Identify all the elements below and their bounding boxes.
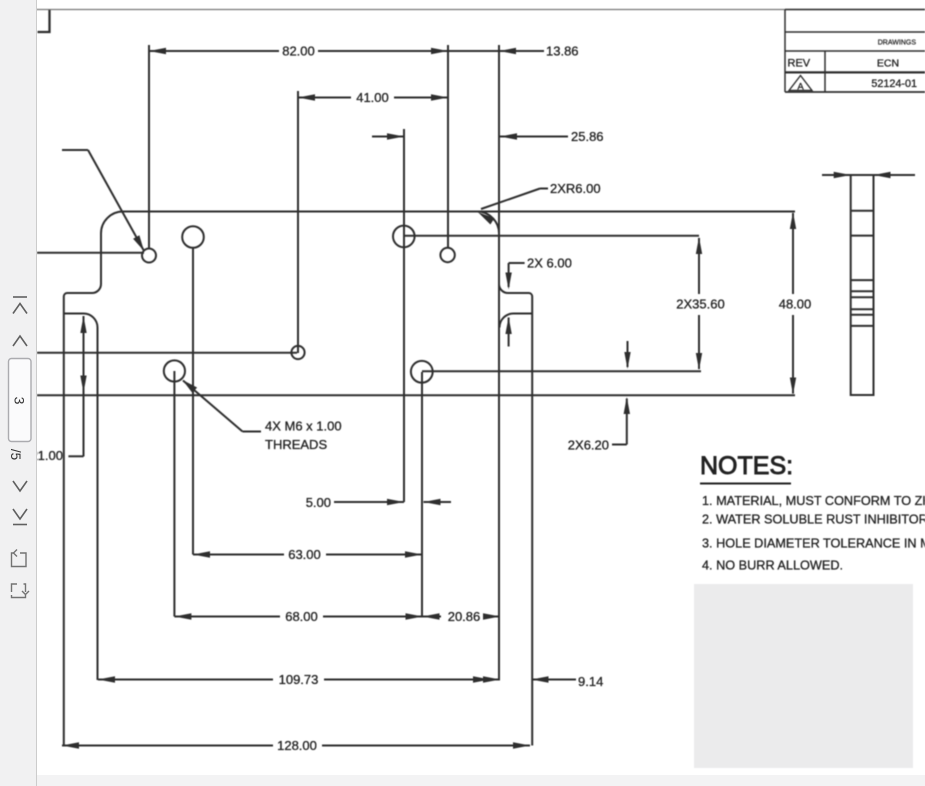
dim 128.00 [62,745,273,747]
sheet top border [35,9,925,11]
leader 4X M6 threads [183,381,243,432]
svg-text:25.86: 25.86 [571,129,604,144]
svg-text:2X 6.00: 2X 6.00 [527,256,572,271]
hole M6 top-right [393,226,415,248]
dim 20.86 [423,613,440,619]
svg-text:1. MATERIAL, MUST CONFORM TO Z: 1. MATERIAL, MUST CONFORM TO ZKTHW [702,494,925,508]
svg-text:128.00: 128.00 [277,738,317,753]
part edge to upper-left small hole [37,252,144,254]
toolbar last-page button [13,509,27,525]
leader 2XR6.00 [540,188,548,190]
part right tab bottom edge [514,313,533,315]
part right tab outer edge + 128.00 extension [531,297,533,746]
part fillet left inner [92,284,101,293]
dim 9.14 [532,679,577,681]
svg-text:ECN: ECN [877,57,899,69]
dim 48.00 [792,213,794,294]
part left tab bottom edge [64,313,83,315]
svg-text:2X6.20: 2X6.20 [568,437,609,452]
extension line 41.00 to middle small hole [297,91,299,353]
part inner edge through upper-right hole [404,235,699,237]
title block row line 1 [785,31,925,33]
svg-text:68.00: 68.00 [285,609,318,624]
dim 68.00 [174,616,280,618]
svg-text:2. WATER SOLUBLE RUST INHIBITO: 2. WATER SOLUBLE RUST INHIBITOR [702,513,925,527]
toolbar next-page button [13,481,27,491]
side view thickness dim [822,174,851,176]
svg-text:2XR6.00: 2XR6.00 [550,181,601,196]
svg-text:41.00: 41.00 [356,90,389,105]
svg-text:82.00: 82.00 [282,44,315,59]
extension line from 82.00 to top-left small hole [148,45,150,248]
part left tab outer edge + 128.00 extension [63,297,65,746]
hole small top-left [142,249,156,263]
extension line 82.00 to top-right small hole [447,45,449,247]
toolbar previous-page button [13,336,27,346]
pdf viewer vertical toolbar [0,0,37,786]
title block row line 2 [785,50,925,52]
dim 25.86 [372,136,404,138]
svg-text:63.00: 63.00 [288,547,321,562]
title block top edge [785,9,925,11]
part edge to middle small hole [37,352,297,354]
sheet corner bracket [38,10,50,32]
part right step top edge [508,292,529,294]
svg-text:/5: /5 [8,449,23,460]
svg-text:DRAWINGS: DRAWINGS [878,40,917,47]
gray placeholder box [694,584,913,768]
side view internal edges [851,210,874,212]
svg-text:52124-01: 52124-01 [871,78,917,90]
title block row line 3 (thick) [785,71,925,73]
dim 21.00 [83,316,85,457]
dim 2X35.60 [698,238,700,294]
svg-text:20.86: 20.86 [448,609,481,624]
svg-text:2X35.60: 2X35.60 [676,297,724,312]
part inner edge lower right [422,370,701,372]
dim 5.00 [334,501,404,503]
dim 63.00 [193,554,284,556]
svg-text:5.00: 5.00 [306,495,331,510]
part bottom edge with extensions [37,394,795,396]
svg-text:4. NO BURR ALLOWED.: 4. NO BURR ALLOWED. [702,559,843,573]
svg-text:109.73: 109.73 [279,672,319,687]
toolbar rotate-counterclockwise button [12,550,27,567]
svg-text:A: A [797,82,804,93]
dim 109.73 [98,679,273,681]
dim 2X6.20 [627,341,629,367]
title block column divider [824,51,826,92]
part left edge upper [100,234,102,285]
part fillet top-left R6 [101,212,123,234]
part left edge lower + 109.73 extension [97,328,99,681]
revision triangle A symbol [789,76,812,91]
svg-text:13.86: 13.86 [546,44,579,59]
dim 13.86 [448,50,544,52]
part right edge + extensions [498,45,500,680]
toolbar page number input box [9,359,32,442]
svg-text:3. HOLE DIAMETER TOLERANCE IN: 3. HOLE DIAMETER TOLERANCE IN MM TO BE [702,537,925,551]
hole small top-right [440,248,454,262]
extension line top-left M6 hole to 63.00 [192,249,194,555]
leader to small hole top-left [62,149,88,151]
hole M6 top-left [182,226,204,248]
dim 82.00 [149,50,279,52]
part top edge with 48.00 extension [123,211,795,213]
hole small middle [291,346,304,359]
svg-text:3: 3 [12,397,28,405]
title block bottom line [785,91,925,93]
extension line 25.86 through top-right M6 hole to 5.00 [403,129,405,502]
pdf viewer bottom bar [0,775,925,786]
toolbar rotate-clockwise button [12,584,30,598]
part fillet right inner [499,284,508,293]
part fillet left small [64,293,67,297]
extension line bottom-left M6 hole to 68.00 [173,371,175,617]
part fillet top-right R6 [477,212,499,234]
dim 41.00 [298,97,351,99]
svg-text:48.00: 48.00 [779,297,812,312]
part fillet right lower R6 [500,314,514,328]
part fillet right small [529,293,532,297]
svg-text:THREADS: THREADS [265,437,327,452]
hole M6 bottom-right [411,361,433,383]
toolbar first-page button [13,297,27,314]
svg-text:NOTES:: NOTES: [700,452,793,480]
svg-text:9.14: 9.14 [578,674,603,689]
svg-text:REV: REV [788,57,811,69]
part left step top edge [67,292,92,294]
leader 2X 6.00 [509,262,525,264]
extension line bottom-right M6 hole down [421,372,423,617]
part fillet left lower R6 [83,313,98,327]
title block left vertical [784,10,786,93]
side view outline [851,175,874,395]
hole M6 bottom-left [164,360,185,381]
svg-text:4X M6 x 1.00: 4X M6 x 1.00 [265,419,342,434]
